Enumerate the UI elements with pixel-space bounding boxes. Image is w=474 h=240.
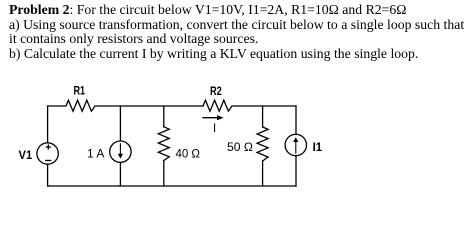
- wire 50ohm branch upper: [262, 106, 264, 127]
- wire left branch upper (top wire to V1): [47, 106, 49, 143]
- I1 source arrowhead: [293, 137, 298, 142]
- svg-text:50 Ω: 50 Ω: [227, 140, 253, 154]
- wire left branch lower (V1 to bottom wire): [47, 164, 49, 186]
- svg-text:40 Ω: 40 Ω: [176, 147, 201, 161]
- wire right branch lower (I1 to bottom wire): [295, 156, 297, 186]
- wire right branch upper (top wire to I1): [295, 106, 297, 134]
- svg-text:I1: I1: [313, 140, 323, 154]
- wire 40ohm branch lower: [163, 161, 165, 187]
- resistor 50ohm vertical zigzag: [257, 127, 268, 161]
- wire 40ohm branch upper: [163, 106, 165, 127]
- wire 1A branch lower: [119, 163, 121, 186]
- voltage source V1 circle: [37, 143, 58, 164]
- resistor 40ohm vertical zigzag: [158, 127, 169, 161]
- wire 1A branch upper: [119, 106, 121, 141]
- current source I1 circle: [285, 134, 306, 155]
- current source 1A circle: [110, 141, 131, 162]
- wire bottom: [48, 185, 296, 187]
- V1 minus sign: [45, 160, 51, 161]
- 1A source arrowhead: [118, 154, 123, 159]
- I1 source arrow shaft (up): [295, 140, 297, 153]
- current I arrowhead: [217, 115, 224, 120]
- wire 50ohm branch lower: [262, 161, 264, 186]
- V1 plus sign: [46, 146, 51, 147]
- wire top-left segment and resistor R1 (with zigzag) and top wire to R2: [48, 100, 203, 111]
- resistor R2 zigzag and top wire to right corner: [203, 100, 296, 111]
- problem statement text: [9, 3, 474, 61]
- svg-text:1 A: 1 A: [87, 146, 104, 160]
- svg-text:V1: V1: [19, 148, 33, 162]
- svg-text:I: I: [213, 121, 216, 135]
- 1A source arrow shaft (down): [119, 144, 121, 157]
- current I arrow shaft under R2: [203, 117, 218, 119]
- svg-text:R1: R1: [74, 84, 86, 98]
- svg-text:R2: R2: [210, 84, 222, 98]
